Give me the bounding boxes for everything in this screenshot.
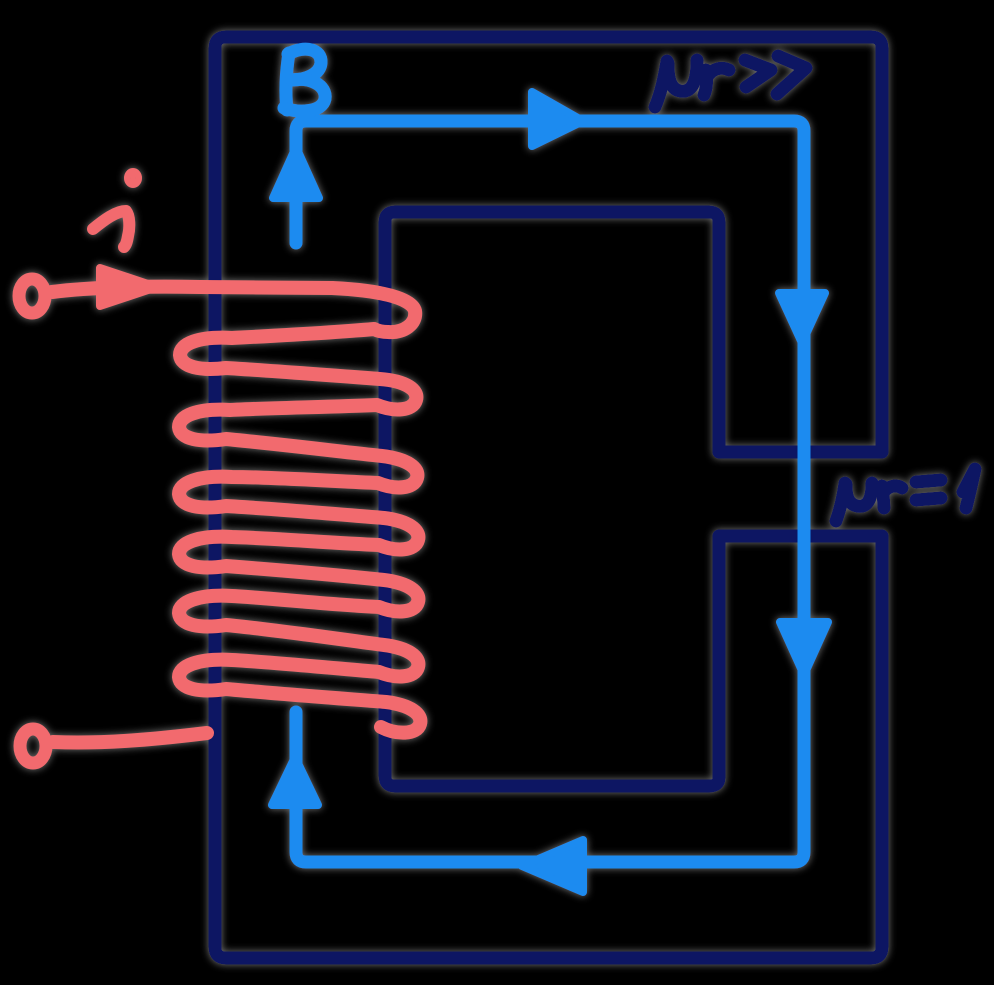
terminal bottom-left (red ring) bbox=[20, 729, 46, 763]
air gap upper face bbox=[719, 446, 882, 459]
flux arrowhead down (right limb, below gap) bbox=[780, 622, 828, 675]
flux path loop (blue) bbox=[296, 121, 804, 862]
label i (red) bbox=[93, 174, 136, 247]
flux arrowhead right (top yoke) bbox=[532, 92, 583, 146]
coil lead-in wire with current arrow (red) bbox=[52, 287, 332, 292]
flux arrowhead up (top-left limb, B arrow) bbox=[273, 147, 319, 198]
flux arrowhead up (bottom-left limb) bbox=[272, 757, 318, 805]
label B (blue) bbox=[284, 49, 325, 111]
core outer outline (navy, broken at air gap on right limb) bbox=[215, 37, 882, 958]
label mu_r >> (navy) bbox=[655, 56, 806, 107]
flux arrowhead left (bottom yoke) bbox=[522, 840, 583, 892]
core inner window outline (navy, broken at air gap on right limb) bbox=[385, 212, 719, 786]
label mu_r = 1 (navy) bbox=[836, 469, 975, 521]
coil lead-out wire (red) bbox=[53, 733, 207, 743]
terminal top-left (red ring) bbox=[19, 279, 45, 313]
current arrowhead (red) bbox=[100, 268, 157, 306]
coil winding (red, 7 turns around left limb) bbox=[179, 288, 420, 733]
flux arrowhead down (right limb, above gap) bbox=[779, 293, 825, 343]
air gap lower face bbox=[719, 530, 882, 543]
